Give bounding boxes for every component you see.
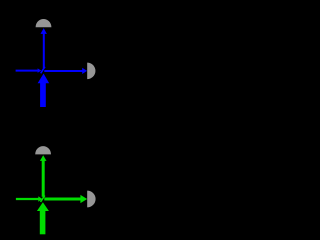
beam splitter BS2 (green interferometer): [41, 195, 45, 202]
detector D4 (right output, green interferometer): [87, 191, 95, 208]
input beam arrow (thick green): [37, 202, 49, 234]
wire: incoming beam line (blue, left): [16, 70, 40, 72]
wire: reflected beam to D3 (green, up): [40, 155, 47, 197]
detector D1 (top output, blue interferometer): [36, 19, 52, 27]
wire: transmitted beam to D4 (green, right): [44, 195, 87, 203]
input beam arrow (thick blue): [38, 74, 50, 108]
arrowhead on incoming blue beam: [38, 68, 42, 72]
wire: reflected beam to D1 (blue, up): [41, 28, 47, 68]
beam splitter BS1 (blue interferometer): [41, 67, 45, 74]
detector D3 (top output, green interferometer): [35, 146, 51, 154]
arrowhead on incoming green beam: [38, 196, 42, 201]
wire: transmitted beam to D2 (blue, right): [44, 68, 87, 74]
wire: incoming beam line (green, left): [16, 198, 40, 200]
detector D2 (right output, blue interferometer): [87, 63, 95, 80]
